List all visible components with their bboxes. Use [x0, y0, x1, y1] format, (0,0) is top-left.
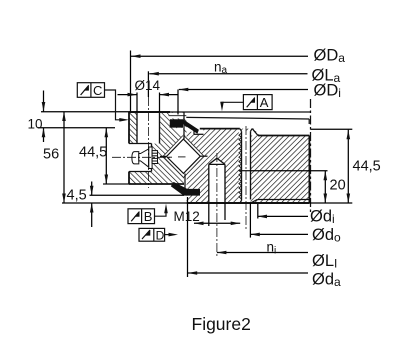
M12 hole right edge	[250, 131, 252, 199]
nipple flange	[149, 147, 152, 169]
seal step white notch	[194, 129, 204, 135]
inner ring top face	[200, 128, 240, 130]
dim 4,5 ext line	[90, 194, 185, 196]
M12 dim line	[194, 222, 240, 224]
dim texts	[28, 59, 381, 256]
dim ODi line	[179, 89, 308, 91]
dim 56 line	[63, 112, 65, 204]
datum A box	[222, 95, 272, 110]
dim Odo extension	[249, 203, 251, 238]
dim Oda line	[188, 272, 308, 274]
dim Odo line	[250, 233, 308, 235]
arrow 20 top	[324, 171, 328, 181]
outer ring hatched section	[129, 112, 187, 184]
arrow 44,5R bottom	[347, 194, 351, 204]
A leader	[222, 102, 243, 105]
inner ring corner chamfer	[252, 129, 258, 136]
B leader	[155, 209, 167, 216]
right 44,5 line	[347, 130, 349, 203]
M12 hole white cutout	[239, 131, 251, 204]
arrow Odo	[250, 233, 259, 237]
arrow M12 right	[231, 222, 241, 226]
roller center dashes	[169, 156, 186, 158]
dim Oda extension	[187, 197, 189, 277]
dim Odi extension	[257, 204, 259, 219]
seal gap white strip top	[169, 113, 199, 119]
inner ring bore edge	[308, 136, 310, 204]
svg-text:C: C	[93, 83, 102, 98]
roller diamond	[167, 139, 201, 173]
roller clearance white	[163, 135, 204, 178]
bottom rim edge line	[257, 199, 311, 201]
svg-text:44,5: 44,5	[79, 145, 107, 161]
dim O14 line right	[160, 94, 179, 96]
dim O14 line left	[118, 94, 138, 96]
dim 10 ext top	[41, 111, 129, 113]
dim 4,5 arrow lines	[91, 182, 93, 196]
D leader	[165, 234, 171, 236]
outer ring bottom ext line	[103, 183, 129, 185]
top face outer ring	[129, 111, 170, 113]
inner ring bottom face	[187, 202, 310, 204]
arrow 44,5R top	[347, 130, 351, 140]
svg-text:B: B	[144, 209, 153, 224]
top face extension to axis	[170, 111, 311, 113]
outer ring OD edge upper	[128, 112, 130, 144]
arrow 56 bottom	[62, 194, 66, 204]
nipple shank	[152, 151, 157, 164]
lip edge drop at bore	[308, 119, 310, 124]
seal groove line	[169, 115, 187, 117]
C leader	[105, 90, 123, 120]
M12 hole centerline	[245, 126, 247, 231]
O14 hole left edge	[136, 112, 138, 144]
diameter labels right	[310, 47, 345, 290]
body outlines	[103, 112, 311, 184]
arrow 10 bottom	[42, 128, 46, 138]
mounting hole O14 white cutout	[137, 113, 160, 144]
svg-text:D: D	[156, 228, 165, 242]
datum D box	[139, 228, 171, 241]
arrow 4,5 bottom	[90, 203, 94, 213]
nipple cone	[139, 149, 149, 167]
M12 bottom chamfer left	[240, 201, 242, 204]
plug hole right edge	[224, 164, 226, 203]
arrowheads	[42, 54, 350, 274]
bearing axis centerline	[310, 99, 312, 212]
pocket top	[129, 143, 152, 145]
arrow M12 left	[194, 222, 204, 226]
plug hole edge extensions	[208, 203, 210, 226]
arrow OLi	[217, 251, 227, 255]
M12 thread end line	[239, 170, 251, 172]
dim O14 ext left	[136, 93, 138, 113]
arrow OLa	[149, 72, 159, 76]
svg-text:ØLI: ØLI	[312, 252, 337, 271]
svg-text:4,5: 4,5	[67, 188, 87, 204]
bottom face extension line	[62, 202, 187, 204]
svg-text:ØDi: ØDi	[314, 82, 341, 101]
svg-text:56: 56	[43, 147, 59, 163]
M12 bottom chamfer right	[251, 200, 258, 204]
svg-text:Figure2: Figure2	[192, 314, 251, 334]
arrow ODi	[179, 88, 189, 92]
svg-text:44,5: 44,5	[353, 158, 381, 174]
arrow 56 top	[62, 112, 66, 122]
M12 top chamfer right	[251, 129, 253, 132]
dim 44,5 left line	[105, 128, 107, 184]
M12 hole left edge	[241, 131, 243, 200]
20 ext line	[251, 170, 328, 172]
inner ring recessed top face	[258, 135, 309, 137]
gap line below roller	[184, 174, 186, 191]
arrow O14 left	[128, 93, 138, 97]
svg-text:20: 20	[330, 178, 346, 194]
svg-text:M12: M12	[174, 209, 200, 224]
gap line right of roller	[200, 155, 207, 157]
plug hole centerline	[216, 153, 218, 256]
arrow 10 top	[42, 102, 46, 112]
gap line above roller	[183, 113, 185, 140]
M12 top chamfer left	[240, 129, 242, 132]
arrow 44,5L bottom	[105, 175, 109, 185]
arrow ODa	[131, 54, 141, 58]
arrow 20 bottom	[324, 194, 328, 204]
outer ring bottom face	[129, 183, 184, 185]
arrow 4,5 top	[90, 186, 94, 196]
white notch under top seal	[177, 128, 184, 136]
pocket wall	[151, 144, 153, 172]
dim ODi extension line	[177, 90, 179, 115]
dim 10 ext bottom	[38, 127, 115, 129]
dim ODa extension line	[130, 51, 132, 112]
inner ring top lip edge	[186, 117, 309, 119]
datum B box	[128, 209, 166, 224]
dim ODa line	[131, 55, 308, 57]
svg-text:Ødi: Ødi	[310, 208, 335, 227]
20 line	[324, 171, 326, 203]
svg-text:Ø14: Ø14	[135, 78, 161, 93]
arrow Odi	[258, 215, 268, 219]
dim 10 arrow lines	[43, 91, 45, 112]
dim O14 ext right	[159, 93, 161, 113]
M12 corner chamfer white	[251, 129, 259, 136]
grease nipple	[132, 147, 158, 169]
plug hole shoulder line	[209, 163, 225, 165]
svg-text:A: A	[260, 95, 269, 110]
gap line left of roller	[160, 155, 167, 157]
pocket bottom	[129, 171, 152, 173]
M12 thread teeth	[239, 133, 242, 199]
seal step vertical	[193, 129, 195, 135]
right 44,5 ext line	[311, 128, 353, 130]
bottom seal	[171, 182, 200, 196]
O14 hole centerline	[147, 97, 149, 188]
arrow 44,5L top	[105, 128, 109, 138]
nipple axis centerline	[112, 156, 171, 158]
plug hole drill cone	[209, 158, 225, 164]
arrow O14 right	[160, 93, 170, 97]
nipple ball end	[132, 152, 139, 164]
datum C box	[77, 83, 122, 120]
thread lines	[152, 152, 157, 154]
inner ring outlines	[169, 116, 312, 203]
dim OLa line (n_a)	[149, 73, 307, 75]
plug hole left edge	[208, 164, 210, 203]
outer ring OD edge lower	[128, 172, 130, 185]
svg-text:10: 10	[28, 117, 43, 132]
dim OLa extension line	[147, 71, 149, 97]
dim OLi line (n_i)	[217, 252, 308, 254]
O14 hole right edge	[159, 112, 161, 144]
grease nipple pocket white cutout	[129, 144, 152, 172]
inner ring hatched section	[187, 129, 310, 203]
dim Odi line	[258, 215, 309, 217]
top seal	[170, 119, 199, 134]
plug hole white cutout	[209, 158, 225, 203]
arrow Oda	[188, 271, 198, 275]
seal step horizontal	[194, 133, 204, 135]
